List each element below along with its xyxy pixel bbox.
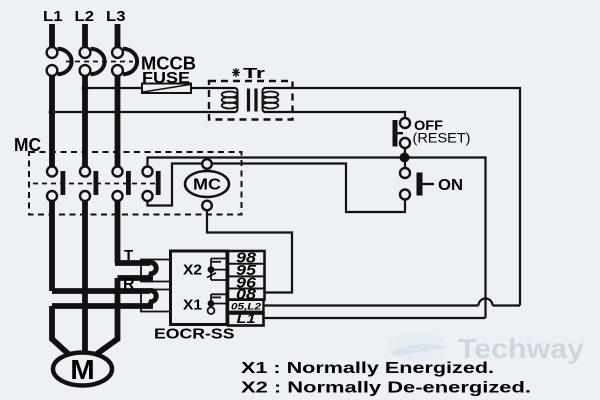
- svg-text:EOCR-SS: EOCR-SS: [154, 326, 235, 343]
- svg-text:X2 : Normally De-energized.: X2 : Normally De-energized.: [241, 380, 531, 397]
- svg-text:(RESET): (RESET): [413, 131, 471, 146]
- svg-text:L1: L1: [43, 8, 63, 25]
- svg-text:MC: MC: [193, 177, 221, 194]
- svg-text:L2: L2: [75, 8, 95, 25]
- svg-text:L3: L3: [106, 8, 126, 25]
- svg-text:R: R: [123, 276, 135, 293]
- svg-text:ON: ON: [438, 177, 463, 194]
- svg-text:T: T: [124, 247, 133, 264]
- svg-text:MC: MC: [14, 135, 41, 155]
- svg-text:M: M: [70, 354, 95, 385]
- svg-text:X1: X1: [183, 298, 202, 314]
- svg-text:05,L2: 05,L2: [231, 301, 262, 312]
- svg-text:X2: X2: [183, 263, 202, 279]
- svg-text:L1: L1: [237, 312, 256, 326]
- svg-text:X1 : Normally Energized.: X1 : Normally Energized.: [241, 360, 494, 377]
- svg-text:Tr: Tr: [243, 65, 265, 82]
